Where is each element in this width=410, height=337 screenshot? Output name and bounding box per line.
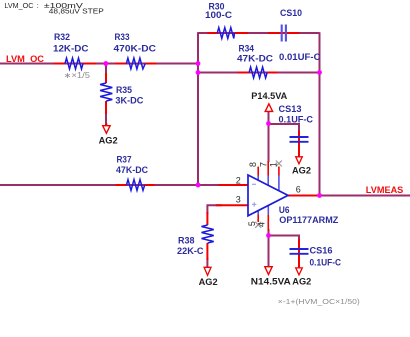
ground AG2 (below CS13)	[292, 157, 311, 177]
svg-text:0.1UF-C: 0.1UF-C	[310, 258, 342, 268]
svg-text:N14.5VA: N14.5VA	[251, 277, 292, 287]
pin number 8	[248, 162, 258, 167]
wire R34 feedback branch	[198, 72, 320, 74]
svg-text:CS16: CS16	[310, 246, 333, 256]
pin number 7	[258, 162, 268, 167]
svg-text:48,85uV STEP: 48,85uV STEP	[49, 9, 104, 16]
svg-text:CS10: CS10	[280, 8, 302, 18]
svg-text:0.1UF-C: 0.1UF-C	[279, 114, 314, 124]
svg-text:R38: R38	[178, 235, 195, 245]
wire R35 to AG2	[105, 110, 107, 125]
ground AG2 (below R35)	[99, 123, 118, 146]
wire left vertical feedback net	[197, 33, 199, 185]
resistor R35	[100, 73, 144, 114]
svg-text:OP1177ARMZ: OP1177ARMZ	[279, 215, 338, 225]
junction right vertical / R34 row	[317, 70, 322, 75]
svg-text:2: 2	[236, 176, 241, 186]
svg-text:×-1+(HVM_OC×1/50): ×-1+(HVM_OC×1/50)	[278, 297, 361, 306]
svg-text:12K-DC: 12K-DC	[53, 44, 89, 54]
svg-text:3K-DC: 3K-DC	[115, 96, 143, 106]
svg-text:R35: R35	[116, 85, 132, 95]
wire branch to CS16	[269, 236, 300, 242]
svg-text:∗×1/5: ∗×1/5	[64, 71, 91, 80]
no-connect X pin 5	[255, 222, 261, 228]
resistor R32	[53, 32, 96, 69]
resistor R37	[116, 155, 155, 191]
wire top feedback branch (R30/CS10)	[197, 32, 319, 34]
junction input row / R35	[103, 61, 108, 66]
resistor R34	[237, 44, 277, 78]
wire pin 3 net to R38	[207, 205, 222, 214]
wire R38 to AG2	[206, 258, 208, 267]
annotation note LVM_OC range	[4, 3, 104, 16]
wire pin 4 to N14.5VA	[268, 229, 270, 267]
op-amp U6	[216, 161, 339, 232]
svg-text:3: 3	[236, 194, 241, 204]
svg-text:100-C: 100-C	[205, 10, 233, 20]
svg-text:AG2: AG2	[99, 135, 118, 146]
svg-text:AG2: AG2	[292, 165, 311, 176]
wire right vertical feedback net	[319, 32, 321, 195]
svg-text:R32: R32	[54, 32, 70, 42]
svg-text:470K-DC: 470K-DC	[114, 44, 157, 54]
svg-text:7: 7	[258, 162, 268, 167]
wire main input row to pin 2	[0, 184, 222, 186]
capacitor CS10	[268, 8, 321, 62]
svg-text:AG2: AG2	[199, 277, 218, 288]
power N14.5VA	[251, 267, 292, 287]
pin number 1	[269, 162, 279, 167]
svg-text::: :	[37, 3, 39, 10]
svg-text:LVM_OC: LVM_OC	[4, 3, 33, 10]
svg-text:47K-DC: 47K-DC	[116, 165, 148, 175]
junction output / right vertical	[317, 193, 322, 198]
wire output net LVMEAS	[316, 195, 410, 197]
svg-text:47K-DC: 47K-DC	[237, 54, 274, 64]
wire net LVM_OC row (input to R32/R33)	[0, 63, 198, 65]
svg-text:6: 6	[296, 185, 301, 195]
svg-text:5: 5	[247, 221, 257, 226]
resistor R33	[114, 32, 157, 69]
svg-text:LVMEAS: LVMEAS	[366, 185, 404, 196]
junction P14.5VA / CS13	[266, 121, 271, 126]
svg-text:0.01UF-C: 0.01UF-C	[279, 52, 321, 62]
resistor R30	[205, 2, 248, 39]
svg-text:R37: R37	[117, 155, 132, 165]
wire branch to CS13	[269, 124, 300, 132]
svg-text:1: 1	[269, 162, 279, 167]
svg-text:4: 4	[257, 222, 267, 227]
capacitor CS13	[279, 104, 314, 157]
junction left vertical / input row	[196, 61, 201, 66]
no-connect X pin 1	[276, 161, 282, 167]
pin number 4	[257, 222, 267, 227]
svg-text:P14.5VA: P14.5VA	[251, 91, 288, 101]
wire R35 to junction	[105, 64, 107, 77]
capacitor CS16	[290, 239, 342, 268]
power P14.5VA	[251, 91, 288, 111]
svg-text:U6: U6	[279, 205, 290, 215]
junction left vertical / pin2 row	[196, 183, 201, 188]
junction pin4 / CS16	[266, 233, 271, 238]
resistor R38	[177, 212, 214, 260]
wire P14.5VA net to pin 7	[268, 112, 270, 162]
junction left vertical / R34 row	[196, 70, 201, 75]
ground AG2 (below R38)	[199, 267, 218, 288]
pin number 5	[247, 221, 257, 226]
svg-text:22K-C: 22K-C	[177, 246, 204, 256]
ground AG2 (below CS16)	[292, 268, 311, 288]
svg-text:R34: R34	[239, 44, 255, 54]
svg-text:R33: R33	[115, 32, 130, 42]
svg-text:8: 8	[248, 162, 258, 167]
svg-text:CS13: CS13	[279, 104, 302, 114]
svg-text:AG2: AG2	[292, 277, 311, 288]
